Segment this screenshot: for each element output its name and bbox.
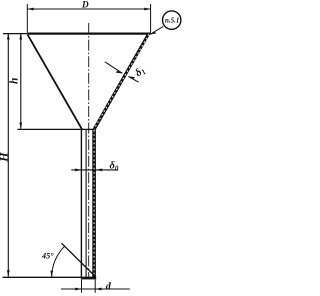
dimension H bottom arrow (7, 270, 10, 276)
dimension h top arrow (19, 33, 22, 39)
dimension H line (7, 33, 9, 276)
dimension delta1 upper line with arrow (105, 62, 123, 73)
tube left wall inner (85, 129, 87, 277)
tube right wall section band (92, 129, 96, 278)
dimension D right extension line (150, 4, 152, 33)
svg-text:D: D (81, 0, 89, 10)
dimension delta0 line (71, 169, 118, 171)
funnel top edge (27, 32, 150, 34)
svg-text:45°: 45° (41, 251, 54, 260)
dimension delta0 left arrow (75, 169, 81, 172)
cone right wall section band (92, 33, 151, 130)
callout leader line (151, 26, 164, 34)
dimension d right extension line (94, 280, 96, 293)
bottom baseline extension (3, 276, 97, 278)
cone-tube junction and h extension line (18, 128, 95, 130)
tube bottom edge (81, 277, 96, 279)
dimension delta0 right arrow (96, 169, 102, 172)
dimension H top arrow (7, 33, 10, 39)
dimension d right arrow (95, 288, 101, 291)
45 degree cut line (62, 243, 96, 277)
svg-text:п.5.1: п.5.1 (165, 17, 179, 25)
centerline (88, 23, 90, 280)
45 degree arc (52, 246, 65, 277)
tube left wall outer (80, 129, 82, 277)
dimension D left arrow (27, 8, 33, 11)
45 degree arc arrow (50, 271, 53, 277)
callout leader arrow (149, 32, 156, 35)
dimension delta1 lower line with arrow (128, 76, 138, 82)
dimension h line (20, 33, 22, 129)
callout balloon circle (163, 11, 181, 29)
dimension h bottom arrow (19, 123, 22, 129)
top edge left extension (3, 33, 27, 35)
dimension D left extension line (26, 4, 28, 33)
svg-text:H: H (0, 152, 10, 163)
cone left wall (28, 35, 82, 130)
dimension D right arrow (144, 8, 150, 11)
svg-text:h: h (9, 78, 21, 84)
dimension D line (27, 8, 150, 10)
dimension d left extension line (81, 280, 83, 293)
dimension d line (61, 288, 130, 290)
dimension d left arrow (75, 288, 81, 291)
